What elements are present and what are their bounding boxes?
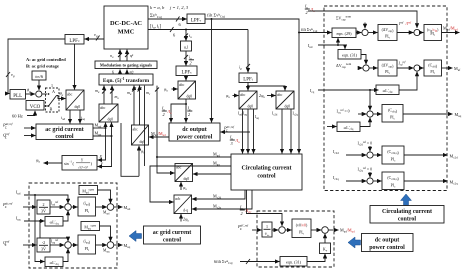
wire PIc R5 output Mc2q <box>404 180 447 182</box>
wire circ Mc2q output loop <box>192 190 252 209</box>
wire sum R1 to PIv R1 <box>368 32 377 34</box>
svg-text:-2: -2 <box>42 240 45 245</box>
transform abc-dq0 T1 <box>66 90 84 110</box>
wire Iud down to wL2 <box>35 195 44 262</box>
svg-text:QrefΣ: QrefΣ <box>3 132 11 139</box>
wire Iu/2 into sum R2 <box>308 11 417 28</box>
dashed container: ac grid current control detail <box>29 183 117 268</box>
wires T6 outputs to circulating control <box>281 109 283 153</box>
transform abc-dq0 T5 <box>239 91 257 109</box>
gain block Kv <box>320 243 331 254</box>
svg-text:d-q: d-q <box>183 209 188 213</box>
svg-text:nu: nu <box>110 54 114 59</box>
wire circ Mc2d output loop <box>192 190 245 199</box>
callout label: ac grid current control <box>144 226 201 244</box>
svg-text:Circulating current: Circulating current <box>382 209 432 215</box>
svg-text:1: 1 <box>51 83 53 88</box>
wire PIi2 to sum L4 <box>96 244 107 246</box>
legend A/B text <box>26 57 66 69</box>
svg-text:ac grid current: ac grid current <box>45 127 84 133</box>
block eqn 31 bottom <box>280 257 307 267</box>
label Iref black red <box>398 22 412 26</box>
svg-text:Y: Y <box>101 162 104 167</box>
wires T1 outputs into ac grid current control <box>69 110 71 123</box>
block Mud open <box>79 186 98 195</box>
wire gain to sum L1 <box>50 206 64 208</box>
svg-text:A: ac grid controlled: A: ac grid controlled <box>26 57 66 62</box>
svg-text:Muq: Muq <box>455 112 462 118</box>
svg-text:control: control <box>163 238 182 244</box>
modulation block <box>95 61 157 69</box>
pll PLL <box>10 90 26 100</box>
svg-text:Iuq: Iuq <box>16 216 21 222</box>
summing junction L3 <box>65 242 72 249</box>
svg-text:Iuqref: Iuqref <box>51 239 58 245</box>
controller (v0/v0) PIv <box>292 219 311 238</box>
svg-text:Eqn. (5)-1 transform: Eqn. (5)-1 transform <box>103 77 150 84</box>
controller (Ccfq) PIc R3 <box>382 105 403 123</box>
svg-text:Ic2dref = 0: Ic2dref = 0 <box>358 141 373 147</box>
block wLcfq <box>337 122 360 132</box>
svg-text:dc output: dc output <box>375 238 400 244</box>
svg-text:control: control <box>55 134 74 140</box>
wire to LPFs <box>185 51 187 66</box>
summing junction R2 <box>414 29 420 35</box>
svg-text:DC-DC-AC: DC-DC-AC <box>110 20 142 27</box>
slash iu tick <box>184 34 188 38</box>
summing junction R6 <box>367 152 373 158</box>
wire LPFv down to transform T1 <box>74 44 76 89</box>
svg-text:control: control <box>398 217 417 223</box>
svg-text:2φu: 2φu <box>259 93 265 99</box>
svg-text:dq0: dq0 <box>285 105 291 109</box>
label Iu/2 black fraction <box>187 106 191 118</box>
averaging block u,l <box>181 41 192 51</box>
svg-text:B: ac grid outage: B: ac grid outage <box>26 64 59 69</box>
wire phi_u into T4 <box>172 88 178 90</box>
svg-text:2: 2 <box>163 112 165 117</box>
svg-text:Iref: Iref <box>398 22 405 26</box>
svg-text:Mud/Mud: Mud/Mud <box>151 131 166 137</box>
wire MMC to LPFv (cap voltages) <box>148 18 187 20</box>
wire wLcfd up into sum R4 <box>399 72 417 90</box>
wire input into wLcfq <box>327 126 336 128</box>
wire phi_u output left <box>44 162 62 164</box>
block Muq open <box>81 222 100 231</box>
block wLcfd <box>376 85 399 95</box>
slash ig tick <box>246 64 250 68</box>
transform abc-dq0 T4 <box>178 81 196 99</box>
svg-text:Ic2d: Ic2d <box>272 112 278 117</box>
svg-text:2: 2 <box>43 202 45 207</box>
svg-text:Iud: Iud <box>16 190 21 196</box>
dashed container: circulating current control detail <box>324 6 447 191</box>
svg-text:abc: abc <box>67 93 73 97</box>
wire pi/6 to sum <box>38 80 40 90</box>
wire sum L3 to PIi2 <box>71 244 77 246</box>
svg-text:vg: vg <box>11 72 15 78</box>
svg-text:Icq: Icq <box>310 88 315 94</box>
svg-text:PdC,refΣ: PdC,refΣ <box>223 125 235 132</box>
svg-text:2: 2 <box>306 10 308 15</box>
wire eqn31 to sum R3 top <box>361 55 366 65</box>
wire circ Mud to T3b chain <box>157 156 231 158</box>
filter LPFv <box>187 14 205 24</box>
svg-text:Circulating current: Circulating current <box>242 166 292 172</box>
svg-text:φu: φu <box>164 87 168 93</box>
arcsin formula block <box>62 156 97 171</box>
svg-text:VCO: VCO <box>30 105 41 110</box>
controller (Cc2dq) PIc R4 <box>382 146 404 164</box>
wires M junctions down to X/Y <box>98 128 106 160</box>
wire T3b right input <box>193 173 231 175</box>
wire Vcap nom into sum R1 <box>364 23 366 29</box>
svg-text:ig: ig <box>239 65 242 71</box>
label iu/2 fraction <box>189 55 192 66</box>
svg-text:/Iref: /Iref <box>405 22 413 26</box>
wires up into T2 <box>105 123 107 128</box>
svg-text:φu: φu <box>226 93 230 99</box>
dashed container: dc output power control detail <box>257 211 334 267</box>
wire phi_u into T5 <box>233 95 239 97</box>
wire PIi1 to sum L2 <box>96 206 107 208</box>
wire T4 outputs to dc power control <box>185 99 187 122</box>
svg-text:iu: iu <box>189 33 192 39</box>
wire wLcfq into sum R5 bottom <box>360 118 370 127</box>
wire MMC to LPFv left (grid voltage) <box>85 38 104 40</box>
svg-text:φu: φu <box>183 185 187 191</box>
wire Muq open into sum L4 <box>100 226 111 241</box>
controller (Ccfd) PIc R2 <box>424 60 442 76</box>
wire sum R4 to PIc R2 <box>420 67 423 69</box>
wire sum M1 to PIv M <box>285 229 291 231</box>
wires T3a up to Eqn <box>133 86 135 125</box>
wire switch to T1 <box>57 96 66 99</box>
wire Icir down to dc power detail <box>247 190 283 226</box>
summing junction M1 <box>279 227 286 234</box>
svg-text:control: control <box>257 174 276 180</box>
wire dc power output M into T3a <box>149 136 169 138</box>
wire LPFs to transform <box>185 76 187 81</box>
wire PIv R1 to sum R2 <box>397 32 413 34</box>
wire arm current bus <box>148 29 248 31</box>
svg-text:2φu: 2φu <box>183 217 189 223</box>
wire iu branch down <box>185 30 187 41</box>
svg-text:nkl: nkl <box>130 54 134 59</box>
wire gain to sum L3 <box>50 244 64 246</box>
switch A/B dashed box <box>46 88 60 112</box>
controller block: Circulating current control <box>231 154 302 190</box>
callout label: dc output power control <box>362 234 414 252</box>
svg-text:vg: vg <box>94 32 98 38</box>
wire sum R2 to PIc R1 <box>420 32 423 34</box>
summing junction R4 <box>414 65 420 71</box>
wire sum to switch <box>42 93 47 95</box>
wire wL2 up into sum L3 bottom <box>63 249 68 262</box>
svg-text:mu: mu <box>95 88 100 94</box>
svg-text:6: 6 <box>112 71 114 75</box>
wire sum R7 to PIc R5 <box>373 180 381 182</box>
svg-text:Mud/Mud: Mud/Mud <box>443 26 458 32</box>
svg-text:abc: abc <box>277 93 283 97</box>
svg-text:PdC,refΣ: PdC,refΣ <box>237 223 249 230</box>
block wL'eq upper <box>45 217 63 227</box>
wire into sum R3 <box>360 67 362 69</box>
svg-text:Muf: Muf <box>454 66 460 72</box>
controller (iuq) PIi <box>78 235 96 254</box>
phase offset block pi/6 <box>32 71 46 80</box>
transform acb-dq B4 <box>174 195 192 214</box>
svg-text:mu: mu <box>115 94 120 100</box>
svg-text:dq0: dq0 <box>108 118 114 122</box>
svg-text:θg: θg <box>27 88 31 94</box>
svg-text:abc: abc <box>100 106 106 110</box>
svg-text:Mud: Mud <box>124 205 131 211</box>
svg-text:dq0: dq0 <box>75 105 81 109</box>
svg-text:Ic2qref = 0: Ic2qref = 0 <box>358 167 373 173</box>
wire ref stub into sum R7 <box>369 172 371 177</box>
svg-text:j = 1, 2, 3: j = 1, 2, 3 <box>169 5 189 11</box>
svg-text:eqn. (31): eqn. (31) <box>342 53 358 58</box>
svg-text:√X²+Y²: √X²+Y² <box>78 165 89 169</box>
svg-text:3V̂: 3V̂ <box>41 209 46 214</box>
wire LPFv to far left and down to PLL <box>8 39 65 94</box>
callout blue arrow up (circulating) <box>401 194 412 206</box>
controller block: dc output power control <box>169 123 220 141</box>
wire Kv up into sum M2 <box>324 234 326 243</box>
svg-text:ΣvkCuj: ΣvkCuj <box>150 13 162 19</box>
svg-text:filt ΣvkCuj: filt ΣvkCuj <box>207 12 225 18</box>
svg-text:(v0/v0): (v0/v0) <box>296 224 308 228</box>
slash vg tick <box>6 72 10 77</box>
svg-text:θu: θu <box>60 91 64 97</box>
svg-text:Mφd: Mφd <box>103 211 110 216</box>
filter LPFv left <box>65 35 84 45</box>
svg-text:abc: abc <box>240 93 246 97</box>
block eqn 31 <box>338 50 361 60</box>
callout label: Circulating current control <box>370 206 444 224</box>
svg-text:Icqref = 0: Icqref = 0 <box>337 109 350 115</box>
wire 2phi_u into T6 <box>267 95 275 97</box>
svg-text:dq0: dq0 <box>248 105 254 109</box>
wire eqn29 to sum R1 <box>356 32 361 34</box>
svg-text:φu: φu <box>36 158 40 164</box>
svg-text:dq0: dq0 <box>187 95 193 99</box>
controller (cf0/cf0) PIc R1 <box>424 25 442 41</box>
summing junction L2 <box>107 204 114 211</box>
slash 6 tick <box>176 17 180 22</box>
wire Icq down into sum R5 <box>369 90 371 110</box>
wire phi_u distribution loop <box>121 123 139 176</box>
svg-text:6: 6 <box>179 22 182 27</box>
wire PIc R4 output Mc2d <box>404 154 447 156</box>
wires T2 up to Eqn transform <box>103 86 105 104</box>
controller (dVcap) PIv R1 <box>378 25 397 41</box>
svg-text:Mφq: Mφq <box>103 249 110 254</box>
svg-text:PLL: PLL <box>13 94 22 99</box>
svg-text:Mc2q: Mc2q <box>450 180 459 186</box>
output Mud red <box>328 229 338 231</box>
summing junction L1 <box>65 204 72 211</box>
svg-text:3V̂: 3V̂ <box>41 247 46 252</box>
svg-text:Ic2q: Ic2q <box>333 175 339 181</box>
output Mud <box>114 206 123 208</box>
wire arm bus down right chain <box>247 30 249 73</box>
svg-text:1: 1 <box>266 224 268 229</box>
callout blue arrow left (dc output) <box>348 237 361 248</box>
svg-text:Pdc,refΣ: Pdc,refΣ <box>2 201 14 208</box>
wire gain to sum M1 <box>272 229 278 231</box>
svg-text:Mud/Mud: Mud/Mud <box>340 228 355 234</box>
wire sum R5 to PIc R3 <box>373 113 381 115</box>
svg-text:2: 2 <box>190 61 192 66</box>
svg-text:Pdc,refΣ: Pdc,refΣ <box>2 122 14 129</box>
wire B4 up output loop <box>144 86 146 151</box>
svg-text:acb: acb <box>175 197 180 201</box>
slash tick iu/2 <box>184 55 188 59</box>
gain block -2/3V <box>37 238 50 252</box>
gain block 1/Vdc <box>262 222 272 237</box>
controller (dVcap) PIv R2 <box>378 60 397 76</box>
callout blue arrow left (ac grid) <box>129 231 142 242</box>
svg-text:abc: abc <box>133 128 139 132</box>
wire Iud up into eqn29 <box>337 38 339 45</box>
label Iu/2 red fraction top <box>304 4 315 16</box>
wire filt bus to right <box>205 19 331 33</box>
svg-text:eqn. (29): eqn. (29) <box>336 31 352 36</box>
wire filt down to circulating control <box>298 31 300 153</box>
wire PLL to sum <box>26 93 35 95</box>
controller (Cc2dq) PIc R5 <box>382 172 404 190</box>
wire Iuq down into sum L3 top <box>40 221 68 241</box>
wire LPFi to transforms <box>247 83 249 91</box>
output Muq <box>114 244 123 246</box>
wire PIc R1 output Mud <box>442 32 460 34</box>
wire VCO to switch B <box>44 105 49 107</box>
svg-text:3: 3 <box>231 141 233 146</box>
wire ref stub into sum R6 <box>369 146 371 151</box>
svg-text:/Iu: /Iu <box>310 7 316 13</box>
label Iu/2 red fraction <box>161 106 172 118</box>
svg-text:k = a, b: k = a, b <box>150 5 165 11</box>
svg-text:MMC: MMC <box>118 29 135 36</box>
summing junction L4 <box>107 242 114 249</box>
svg-text:LPFi: LPFi <box>243 77 253 82</box>
filter LPFi <box>239 73 257 83</box>
svg-text:ΔVcapnom: ΔVcapnom <box>336 62 352 69</box>
summing junction theta <box>36 91 42 97</box>
svg-text:mc: mc <box>146 90 151 96</box>
svg-text:Icdref: Icdref <box>398 61 407 67</box>
controller (iud) PIi <box>78 197 96 216</box>
wire PIv M to sum M2 <box>311 229 321 231</box>
wire long vertical Eqn to T3b <box>157 86 174 173</box>
slash 6 tick on bus <box>170 27 174 32</box>
filter LPFs <box>176 66 197 76</box>
summing junction R1 <box>362 29 368 35</box>
svg-text:B: B <box>50 107 53 112</box>
svg-text:abc: abc <box>179 83 185 87</box>
oscillator VCO <box>26 101 44 111</box>
transform abc-dq0 T3a <box>132 125 149 145</box>
junction filt branch right column <box>298 32 300 34</box>
svg-text:iud: iud <box>61 115 66 121</box>
svg-text:power control: power control <box>177 135 213 141</box>
wire Mud open into sum L2 <box>98 190 111 203</box>
svg-text:eqn. (31): eqn. (31) <box>286 260 302 265</box>
wire filt down to dc output power control <box>211 19 213 122</box>
transform dq0-abc T2 <box>99 104 118 122</box>
svg-text:Ic2q: Ic2q <box>293 112 299 117</box>
wire sum L1 to PIi1 <box>71 206 77 208</box>
svg-text:ΣVcapnom: ΣVcapnom <box>336 15 352 22</box>
summing junction M2 <box>322 227 329 234</box>
svg-text:60 Hz: 60 Hz <box>12 114 23 119</box>
svg-text:6filt ΣvkCuj: 6filt ΣvkCuj <box>214 259 233 265</box>
svg-text:QrefΣ: QrefΣ <box>3 239 10 246</box>
svg-text:iuq: iuq <box>81 115 86 121</box>
svg-text:2: 2 <box>188 112 190 117</box>
label Iu/2 Icir red fraction <box>239 205 252 217</box>
svg-text:Muq: Muq <box>124 243 131 249</box>
svg-text:X: X <box>99 154 103 159</box>
wire PIv R2 to sum R4 <box>397 67 413 69</box>
wire PIc R3 output Muq <box>403 113 452 115</box>
wire Iud into eqn31 <box>338 45 345 49</box>
gain block 2/3V <box>37 200 50 214</box>
junction on filt bus <box>211 18 213 20</box>
block eqn 29 <box>332 28 356 38</box>
equation transform block <box>99 74 153 85</box>
svg-text:ac grid current: ac grid current <box>153 230 192 236</box>
svg-text:Iuq: Iuq <box>255 115 260 120</box>
wire sum R3 to PIv R2 <box>369 67 377 69</box>
wire 2phi_u stub into B4 <box>180 214 182 221</box>
transform dq-abc T3b <box>175 164 193 182</box>
label k=a,b j=1,2,3 <box>150 5 189 11</box>
block wL'eq lower <box>45 257 63 267</box>
wire phi_u stub into T3b <box>180 182 182 190</box>
summing junction R3 <box>363 65 369 71</box>
svg-text:/Iu: /Iu <box>235 138 241 144</box>
svg-text:dq0: dq0 <box>184 177 190 181</box>
svg-text:Iudref: Iudref <box>51 201 58 207</box>
svg-text:Iud: Iud <box>308 43 313 49</box>
svg-text:[iu, il]: [iu, il] <box>150 25 161 30</box>
svg-text:sin: sin <box>64 161 69 166</box>
svg-text:±π/6: ±π/6 <box>35 74 44 79</box>
svg-text:power control: power control <box>369 245 405 251</box>
svg-text:Ic2d: Ic2d <box>333 149 339 155</box>
wire circ Muq to B4 <box>150 166 231 202</box>
summing junction R7 <box>367 178 373 184</box>
controller block: ac grid current control <box>36 124 93 140</box>
wires Eqn up to modulation <box>119 70 121 74</box>
svg-text:dc output: dc output <box>182 127 207 133</box>
wires modulation up to MMC <box>119 50 121 61</box>
svg-text:2: 2 <box>241 211 243 216</box>
wire sum R6 to PIc R4 <box>373 154 381 156</box>
svg-text:mu: mu <box>127 90 132 96</box>
wire eqn31b to Kv <box>307 254 325 262</box>
transform abc-dq0 T6 <box>276 91 294 109</box>
svg-text:Mc2d: Mc2d <box>450 154 459 160</box>
converter block: DC-DC-AC MMC <box>104 6 148 49</box>
svg-text:A: A <box>52 89 55 94</box>
svg-text:6: 6 <box>173 33 176 38</box>
wires T5 outputs to circulating control <box>242 109 244 153</box>
wire phi_u stub into T3a <box>138 146 140 176</box>
